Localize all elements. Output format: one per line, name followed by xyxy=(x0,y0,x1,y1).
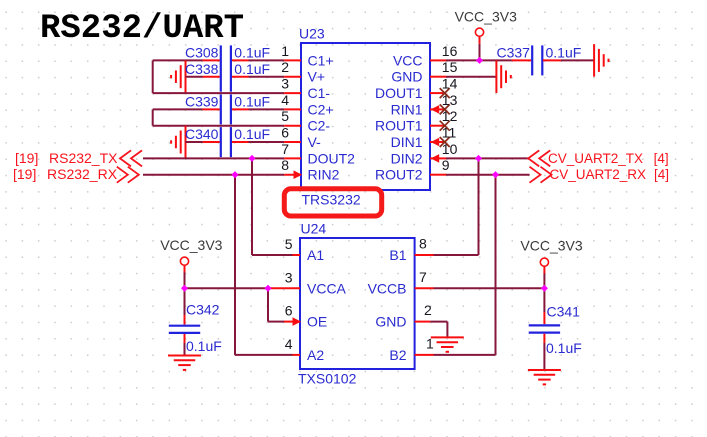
svg-text:C308: C308 xyxy=(185,45,219,61)
svg-text:U24: U24 xyxy=(301,221,327,237)
svg-text:GND: GND xyxy=(391,69,422,85)
svg-text:[19]: [19] xyxy=(13,166,36,182)
svg-text:1: 1 xyxy=(426,335,434,351)
svg-text:DOUT2: DOUT2 xyxy=(308,150,356,166)
svg-text:VCCB: VCCB xyxy=(368,280,407,296)
svg-text:C341: C341 xyxy=(547,304,581,320)
svg-text:[19]: [19] xyxy=(15,150,38,166)
svg-text:VCC_3V3: VCC_3V3 xyxy=(160,237,222,253)
svg-text:14: 14 xyxy=(442,76,458,92)
svg-text:C2-: C2- xyxy=(308,118,331,134)
svg-text:C338: C338 xyxy=(185,61,219,77)
svg-text:B2: B2 xyxy=(389,347,406,363)
svg-text:A1: A1 xyxy=(307,247,324,263)
svg-text:V-: V- xyxy=(308,134,322,150)
svg-text:CV_UART2_TX: CV_UART2_TX xyxy=(548,151,643,166)
svg-text:0.1uF: 0.1uF xyxy=(186,338,222,354)
svg-text:ROUT2: ROUT2 xyxy=(375,167,423,183)
svg-text:VCC_3V3: VCC_3V3 xyxy=(455,8,517,24)
svg-text:0.1uF: 0.1uF xyxy=(234,45,270,61)
svg-text:RIN2: RIN2 xyxy=(308,167,340,183)
svg-text:0.1uF: 0.1uF xyxy=(234,61,270,77)
svg-text:C337: C337 xyxy=(497,45,531,61)
svg-text:C340: C340 xyxy=(185,126,219,142)
svg-text:0.1uF: 0.1uF xyxy=(234,126,270,142)
svg-text:RIN1: RIN1 xyxy=(391,101,423,117)
svg-text:16: 16 xyxy=(442,43,458,59)
svg-text:A2: A2 xyxy=(307,347,324,363)
svg-text:RS232/UART: RS232/UART xyxy=(40,10,244,48)
svg-text:4: 4 xyxy=(285,336,293,352)
svg-text:RS232_TX: RS232_TX xyxy=(49,150,118,166)
svg-text:U23: U23 xyxy=(299,26,325,42)
svg-text:8: 8 xyxy=(419,236,427,252)
svg-text:5: 5 xyxy=(281,108,289,124)
svg-text:6: 6 xyxy=(281,124,289,140)
svg-text:GND: GND xyxy=(375,314,406,330)
svg-text:10: 10 xyxy=(442,141,458,157)
svg-text:3: 3 xyxy=(285,269,293,285)
svg-text:RS232_RX: RS232_RX xyxy=(47,166,118,182)
svg-text:13: 13 xyxy=(442,92,458,108)
svg-text:TXS0102: TXS0102 xyxy=(298,371,357,387)
svg-text:OE: OE xyxy=(307,314,327,330)
svg-text:VCC_3V3: VCC_3V3 xyxy=(520,238,582,254)
svg-text:12: 12 xyxy=(442,108,458,124)
svg-text:C2+: C2+ xyxy=(308,101,334,117)
svg-text:0.1uF: 0.1uF xyxy=(546,340,582,356)
svg-text:[4]: [4] xyxy=(654,167,669,182)
svg-text:ROUT1: ROUT1 xyxy=(375,118,423,134)
svg-text:2: 2 xyxy=(424,302,432,318)
svg-text:C1+: C1+ xyxy=(308,52,334,68)
svg-text:V+: V+ xyxy=(308,69,326,85)
svg-text:4: 4 xyxy=(281,92,289,108)
svg-text:15: 15 xyxy=(442,59,458,75)
svg-text:3: 3 xyxy=(281,76,289,92)
svg-text:DIN1: DIN1 xyxy=(391,134,423,150)
svg-text:DOUT1: DOUT1 xyxy=(375,85,423,101)
svg-text:C1-: C1- xyxy=(308,85,331,101)
svg-text:VCC: VCC xyxy=(393,52,423,68)
svg-text:9: 9 xyxy=(442,157,450,173)
svg-text:C339: C339 xyxy=(185,94,219,110)
svg-text:0.1uF: 0.1uF xyxy=(546,45,582,61)
svg-text:8: 8 xyxy=(281,157,289,173)
svg-text:11: 11 xyxy=(442,124,457,140)
svg-text:VCCA: VCCA xyxy=(307,280,347,296)
svg-text:5: 5 xyxy=(285,236,293,252)
svg-text:B1: B1 xyxy=(389,247,406,263)
svg-text:DIN2: DIN2 xyxy=(391,150,423,166)
svg-text:7: 7 xyxy=(419,269,427,285)
svg-text:TRS3232: TRS3232 xyxy=(302,192,361,208)
svg-text:7: 7 xyxy=(281,141,289,157)
svg-text:0.1uF: 0.1uF xyxy=(234,94,270,110)
svg-text:2: 2 xyxy=(281,59,289,75)
svg-text:[4]: [4] xyxy=(654,151,669,166)
svg-text:1: 1 xyxy=(281,43,289,59)
svg-text:C342: C342 xyxy=(186,302,220,318)
svg-text:6: 6 xyxy=(285,303,293,319)
svg-text:CV_UART2_RX: CV_UART2_RX xyxy=(550,167,647,182)
